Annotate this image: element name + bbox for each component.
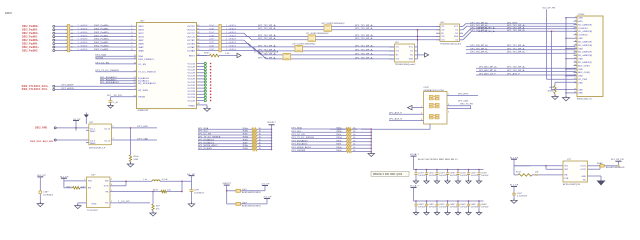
svg-text:DP2_TX0_MP_A-: DP2_TX0_MP_A-: [507, 69, 525, 72]
svg-text:DP1_EQ1ADD1: DP1_EQ1ADD1: [292, 143, 309, 146]
port DSI row 5: [53, 39, 55, 41]
pull-up row A DP1_DC_EN: [198, 134, 252, 136]
wire into U7 left: [514, 165, 530, 167]
svg-text:R0?: R0?: [156, 206, 160, 208]
no-ERC dot #5: [210, 78, 212, 80]
no-ERC dot #11: [210, 97, 212, 99]
svg-text:INCP: INCP: [138, 33, 144, 35]
svg-text:55: 55: [197, 42, 199, 44]
capacitor 082: [426, 200, 428, 202]
svg-text:10uF0603: 10uF0603: [43, 194, 53, 196]
svg-text:R09e: R09e: [337, 140, 342, 142]
capacitor 081: [415, 200, 417, 202]
ground R10: [130, 162, 132, 165]
svg-text:DSI2_PadM0-: DSI2_PadM0-: [22, 43, 38, 45]
svg-text:GND: GND: [409, 59, 414, 61]
svg-text:7: 7: [66, 47, 67, 49]
svg-text:ML_LANE1(P): ML_LANE1(P): [578, 40, 592, 43]
svg-text:GND: GND: [578, 69, 583, 71]
svg-text:24: 24: [134, 82, 136, 84]
svg-text:U7?: U7?: [567, 159, 572, 161]
svg-text:DP1_TX0_MP_A+: DP1_TX0_MP_A+: [471, 44, 489, 47]
svg-text:EN: EN: [88, 188, 91, 190]
pull-up row A DP1_EQ0ADD0: [198, 140, 252, 142]
node VCC ring #3: [204, 72, 206, 74]
svg-text:VCC28: VCC28: [188, 66, 196, 68]
wire VIN: [63, 178, 65, 188]
svg-text:0.1uF/50V: 0.1uF/50V: [517, 196, 528, 198]
capacitor network body: [219, 25, 221, 52]
svg-text:1: 1: [131, 25, 132, 27]
svg-text:C2e?: C2e?: [209, 39, 215, 41]
ground cap 074: [445, 181, 450, 184]
svg-text:ML_LANE0(P): ML_LANE0(P): [578, 23, 592, 26]
svg-text:R09h: R09h: [337, 150, 342, 152]
port circle HPD: [54, 127, 56, 129]
svg-text:CN1?: CN1?: [424, 87, 430, 89]
svg-text:OUTAN: OUTAN: [187, 49, 195, 52]
svg-text:VCC28: VCC28: [188, 69, 196, 71]
svg-text:C2c?: C2c?: [209, 32, 215, 34]
svg-text:DSI2_DDC_AUX_SEL: DSI2_DDC_AUX_SEL: [30, 140, 54, 143]
svg-text:1uF/50V: 1uF/50V: [439, 207, 447, 209]
port circle AUX: [53, 85, 55, 87]
resistor R 47k FB divider: [152, 191, 154, 193]
svg-text:1 .uF4DG: 1 .uF4DG: [78, 42, 88, 44]
pull-up row A DP1_SCL: [198, 131, 252, 133]
wire output row 7: [197, 46, 219, 48]
svg-text:DP2_TX0_MP_A+: DP2_TX0_MP_A+: [507, 66, 526, 69]
svg-text:3: 3: [131, 32, 132, 34]
svg-text:R09d: R09d: [337, 137, 342, 139]
port arrow CN1 pin1: [408, 105, 413, 109]
capacitor 086: [468, 200, 470, 202]
svg-text:DP1_SCL: DP1_SCL: [198, 131, 209, 133]
pull row B DP1_SDA: [292, 128, 347, 130]
svg-text:GND: GND: [454, 36, 459, 38]
svg-text:1 .uF4DG: 1 .uF4DG: [78, 49, 88, 51]
wire HPD row: [56, 127, 88, 129]
svg-text:DP1_CAD: DP1_CAD: [138, 137, 149, 140]
svg-text:DP1_SCL: DP1_SCL: [292, 131, 303, 133]
wire input row 6: [55, 43, 137, 45]
svg-text:20: 20: [574, 81, 576, 83]
svg-text:1uF/50V: 1uF/50V: [418, 175, 426, 177]
svg-text:IO4: IO4: [441, 40, 444, 42]
svg-text:FLB: FLB: [565, 178, 570, 180]
wire pair1 after choke: [332, 25, 441, 27]
pull-up row A DP1_EQ1ADD1: [198, 143, 252, 145]
pull-up row A DP1_RXSWN: [198, 149, 252, 151]
svg-text:8: 8: [131, 49, 132, 51]
svg-text:1: 1: [575, 17, 576, 19]
wire input row 1: [55, 25, 137, 27]
svg-text:GND: GND: [578, 59, 583, 61]
svg-text:1uF/50V: 1uF/50V: [429, 207, 437, 209]
svg-text:7: 7: [575, 37, 576, 39]
wire SW to inductor: [110, 180, 152, 182]
svg-text:4: 4: [131, 35, 132, 37]
capacitor 083: [436, 200, 438, 202]
svg-text:1 .uF4DG: 1 .uF4DG: [78, 32, 88, 34]
svg-text:R08b: R08b: [243, 131, 248, 133]
svg-text:6b H2 SH 2F2FE1 MBC MH1 BE 12: 6b H2 SH 2F2FE1 MBC MH1 BE 12: [418, 159, 458, 161]
svg-text:DP2_TX2_MP_A+: DP2_TX2_MP_A+: [258, 24, 277, 27]
svg-text:BLM15HB221SN1D: BLM15HB221SN1D: [242, 192, 262, 194]
ESD diode U5 box: [395, 44, 415, 62]
svg-text:VCC: VCC: [454, 26, 459, 28]
wire VCC stub #1: [197, 66, 205, 68]
svg-text:DP1_EQ0ADD0: DP1_EQ0ADD0: [292, 139, 309, 142]
svg-text:DP2_TX1_MP_A-: DP2_TX1_MP_A-: [355, 48, 373, 51]
ground rail B: [368, 154, 374, 157]
svg-text:GND: GND: [578, 38, 583, 40]
wire VDDPL rail A: [271, 125, 273, 150]
svg-text:2__PG_2V5: 2__PG_2V5: [118, 201, 130, 203]
svg-text:DP2_TX2_MP_A+: DP2_TX2_MP_A+: [258, 34, 277, 37]
resistor R21 10k: [513, 166, 515, 175]
capacitor 071: [415, 169, 417, 171]
pull-up row A DP1_MODE_ADD2: [198, 146, 252, 148]
svg-text:ML_LANE0(N): ML_LANE0(N): [578, 30, 592, 33]
svg-text:R08c: R08c: [243, 134, 248, 136]
svg-text:22: 22: [574, 92, 576, 94]
wire input row 5: [55, 39, 137, 41]
wire CON2 ground bus: [565, 18, 567, 98]
svg-text:INAP: INAP: [138, 46, 144, 49]
wire U7 GND: [588, 175, 602, 177]
svg-text:DP2_TX1_MP_A+: DP2_TX1_MP_A+: [258, 44, 277, 47]
svg-text:1 .uF4DG: 1 .uF4DG: [78, 39, 88, 41]
svg-text:14: 14: [71, 33, 73, 35]
svg-text:NC: NC: [583, 179, 587, 181]
node VCC ring #11: [204, 96, 206, 98]
svg-text:DP_PWR: DP_PWR: [578, 79, 588, 81]
svg-text:PWDB: PWDB: [138, 97, 145, 99]
svg-text:4: 4: [66, 36, 67, 38]
CN1 internal contact: [435, 114, 439, 116]
wire VCC stub #4: [197, 75, 205, 77]
svg-text:53: 53: [197, 49, 199, 51]
wire VCC stub #11: [197, 96, 205, 98]
svg-text:G1_4: G1_4: [90, 140, 95, 142]
pull row B DP1_MODE_ADD2: [292, 147, 347, 149]
svg-text:INAN: INAN: [138, 49, 144, 52]
wire group2 to CON2: [466, 45, 576, 47]
svg-text:390NQ: 390NQ: [548, 90, 555, 92]
svg-text:DP1_DC_EN: DP1_DC_EN: [292, 134, 306, 136]
svg-text:OUT1: OUT1: [580, 166, 586, 168]
wire U4 outputs to CON2: [463, 24, 576, 27]
capacitor C08 10uF: [39, 177, 41, 191]
svg-text:C29?: C29?: [194, 189, 199, 191]
svg-text:15: 15: [71, 29, 73, 31]
wire VCC stub #7: [197, 84, 205, 86]
pull-up row A DP1_TX_DC_SWNCB: [198, 137, 252, 139]
CN1 internal contact: [435, 95, 439, 97]
svg-text:DSI2_PadM2-: DSI2_PadM2-: [22, 30, 38, 32]
svg-text:DC_EN: DC_EN: [138, 64, 146, 66]
wire input row 8: [55, 49, 137, 51]
ground cap 077: [476, 181, 481, 184]
power VDDPL A: [269, 124, 275, 126]
svg-text:1: 1: [421, 106, 422, 108]
svg-text:PAD8: PAD8: [90, 142, 95, 145]
svg-text:13: 13: [71, 36, 73, 38]
svg-text:1uF/50V: 1uF/50V: [481, 207, 489, 209]
wire VCC stub #9: [197, 90, 205, 92]
svg-text:DP2_TX2_MP_A+: DP2_TX2_MP_A+: [355, 34, 374, 37]
connector CON2 box: [577, 16, 603, 97]
ground cap 082: [424, 213, 429, 216]
svg-text:3: 3: [113, 138, 114, 140]
no-ERC dot #0: [210, 63, 212, 65]
svg-text:R08f: R08f: [243, 142, 248, 144]
svg-text:12: 12: [574, 54, 576, 56]
svg-text:D1: D1: [411, 51, 414, 53]
svg-text:1uF/50V: 1uF/50V: [429, 175, 437, 177]
op IC U1 box: [137, 23, 197, 109]
capacitor 072: [426, 169, 428, 171]
wire U2 drain2: [111, 139, 157, 141]
resistor network RN1 body: [67, 25, 69, 52]
svg-text:DSI2_PadM2-: DSI2_PadM2-: [94, 42, 109, 44]
ferrite bead L0b: [227, 203, 236, 205]
svg-text:INBP: INBP: [138, 40, 144, 42]
node VCC ring #6: [204, 81, 206, 83]
pull row B DP1_EQ0ADD0: [292, 141, 347, 143]
wire HPD_PB bottom: [361, 124, 430, 129]
svg-text:PAD2: PAD2: [90, 130, 95, 133]
svg-text:DP1_RXSWN: DP1_RXSWN: [292, 150, 306, 152]
svg-text:D1_B: D1_B: [105, 140, 111, 142]
svg-text:1uF/50V: 1uF/50V: [418, 207, 426, 209]
wire U5 ground bus: [417, 30, 419, 59]
wire pair1+: [221, 25, 331, 27]
svg-text:IO3: IO3: [396, 59, 399, 61]
svg-text:11: 11: [71, 43, 73, 45]
svg-text:DP2_TX2_MP_A-: DP2_TX2_MP_A-: [355, 37, 373, 40]
wire U2 drain1: [111, 127, 157, 129]
svg-text:5: 5: [131, 39, 132, 41]
svg-text:IN1: IN1: [565, 166, 568, 168]
wire to U7 IN: [514, 165, 563, 167]
svg-text:TPD4E05U06Quadtr4: TPD4E05U06Quadtr4: [440, 43, 461, 46]
svg-text:DP2_TX1_MP_A+: DP2_TX1_MP_A+: [355, 44, 374, 47]
wire pair2+ diagonal: [221, 33, 308, 36]
svg-text:VCC28: VCC28: [188, 100, 196, 102]
svg-text:VDDPL?: VDDPL?: [267, 122, 276, 124]
port DSI row 6: [53, 43, 55, 45]
svg-text:DSI2_PadM2+: DSI2_PadM2+: [22, 26, 39, 28]
svg-text:47k: 47k: [156, 209, 160, 211]
port DSI row 7: [53, 46, 55, 48]
svg-text:14: 14: [574, 61, 576, 63]
resistor R10 100k: [130, 127, 132, 128]
svg-text:DSI2_PadMC+: DSI2_PadMC+: [22, 47, 39, 49]
svg-text:5: 5: [575, 30, 576, 32]
ferrite bead L0a: [227, 190, 236, 192]
ground C08: [39, 194, 41, 204]
svg-text:DP1_DC_EN: DP1_DC_EN: [198, 134, 212, 136]
svg-text:13: 13: [134, 58, 136, 60]
svg-text:59: 59: [197, 28, 199, 30]
svg-text:6: 6: [131, 42, 132, 44]
ground CON2 bus: [562, 98, 569, 101]
wire cap bus 07: [414, 169, 484, 171]
regulator U3 box: [87, 177, 111, 208]
svg-text:6: 6: [113, 126, 114, 128]
wire input row 3: [55, 32, 137, 34]
svg-text:54: 54: [197, 46, 199, 48]
svg-text:2: 2: [66, 29, 67, 31]
svg-text:RxPGN: RxPGN: [95, 57, 103, 59]
svg-text:ML_LANE2(P): ML_LANE2(P): [578, 51, 592, 54]
svg-text:DP2_AUX_MP_A-: DP2_AUX_MP_A-: [479, 69, 497, 72]
svg-text:INBN: INBN: [138, 43, 144, 45]
svg-text:57: 57: [197, 35, 199, 37]
svg-text:1uF/50V: 1uF/50V: [439, 175, 447, 177]
ground cap 072: [424, 181, 429, 184]
svg-text:1 .uF4DG: 1 .uF4DG: [78, 25, 88, 27]
capacitor 074: [447, 169, 449, 171]
ground C29: [191, 191, 193, 204]
svg-text:DP1_AUXP: DP1_AUXP: [62, 84, 75, 87]
wire AUX_SEL row: [56, 139, 88, 141]
wire pair4 after choke: [291, 54, 395, 56]
svg-text:SDA: SDA: [138, 55, 143, 58]
ground cap 073: [434, 181, 439, 184]
svg-text:IO1: IO1: [396, 47, 399, 49]
svg-text:IO3: IO3: [441, 36, 444, 38]
svg-text:GND: GND: [578, 76, 583, 78]
pull row B DP1_EQ1ADD1: [292, 144, 347, 146]
svg-text:100k: 100k: [134, 159, 139, 161]
ground cap 086: [466, 213, 471, 216]
svg-text:INDN: INDN: [138, 30, 144, 32]
capacitor 085: [457, 200, 459, 202]
wire VOS join: [110, 185, 126, 187]
svg-text:VIN: VIN: [88, 181, 92, 183]
svg-text:OUTDN: OUTDN: [187, 30, 196, 32]
svg-text:REXT: REXT: [189, 55, 196, 57]
ground cap 084: [445, 213, 450, 216]
ground 47k: [152, 211, 154, 214]
svg-text:21: 21: [574, 88, 576, 90]
svg-text:VCC28: VCC28: [188, 91, 196, 93]
no-ERC dot #12: [210, 100, 212, 102]
pull row B DP1_DC_EN: [292, 134, 347, 136]
no-ERC dot #8: [210, 87, 212, 89]
svg-text:18: 18: [574, 75, 576, 77]
svg-text:IN2: IN2: [565, 169, 568, 171]
wire output row 6: [197, 43, 219, 45]
CN1 internal contact: [429, 95, 433, 97]
wire input row 4: [55, 36, 137, 38]
port DSI row 2: [53, 29, 55, 31]
svg-text:R08a: R08a: [243, 128, 249, 130]
svg-text:DP1_TX0_MP_B+: DP1_TX0_MP_B+: [471, 52, 489, 54]
svg-text:R08d: R08d: [243, 137, 248, 139]
no-ERC dot #4: [210, 75, 212, 77]
capacitor 073: [436, 169, 438, 171]
ground cap 071: [413, 181, 418, 184]
svg-text:GND: GND: [92, 204, 97, 206]
port arrow REXT: [237, 53, 241, 57]
port DSI row 4: [53, 36, 55, 38]
svg-text:R08e: R08e: [243, 139, 248, 141]
no-ERC dot #1: [210, 66, 212, 68]
wire VCC stub #0: [197, 63, 205, 65]
svg-text:R09c: R09c: [337, 134, 342, 136]
svg-text:1uF/50V: 1uF/50V: [471, 207, 479, 209]
svg-text:CONFIG2: CONFIG2: [578, 35, 588, 37]
svg-text:DP1_EQ0ADD0: DP1_EQ0ADD0: [198, 138, 215, 141]
svg-text:ML_LANE1(N): ML_LANE1(N): [578, 44, 592, 47]
ground C20: [511, 200, 517, 203]
svg-text:R10a: R10a: [134, 156, 140, 158]
svg-text:8: 8: [66, 50, 67, 52]
no-ERC dot #7: [210, 84, 212, 86]
svg-text:8: 8: [135, 85, 136, 87]
svg-text:U5?: U5?: [395, 42, 399, 44]
CN1 internal contact: [429, 103, 433, 105]
svg-text:DP1_MODE_ADD2: DP1_MODE_ADD2: [292, 146, 312, 149]
svg-text:60: 60: [197, 25, 199, 27]
svg-text:R01?: R01?: [153, 189, 158, 191]
svg-text:1uF/50V: 1uF/50V: [481, 175, 489, 177]
pull-up row A DP1_SDA: [198, 128, 252, 130]
ground ADM resistor: [554, 94, 556, 97]
wire output row 3: [197, 32, 219, 34]
wire U3 GND to ground: [78, 202, 87, 204]
svg-text:6: 6: [448, 111, 449, 113]
svg-text:D1: D1: [456, 30, 459, 32]
wire pair4- diagonal: [221, 50, 283, 58]
svg-text:7: 7: [131, 46, 132, 48]
svg-text:R09b: R09b: [337, 131, 342, 133]
svg-text:6: 6: [66, 43, 67, 45]
ESD diode U4 box: [440, 24, 460, 42]
svg-text:9: 9: [575, 44, 576, 46]
svg-text:BLE/NP9083MH1D: BLE/NP9083MH1D: [606, 167, 625, 169]
svg-text:R08g: R08g: [243, 145, 248, 147]
svg-text:DSI2_CTLDATA_AUX+: DSI2_CTLDATA_AUX+: [22, 85, 49, 88]
svg-text:DP2_TX2_MP_A+: DP2_TX2_MP_A+: [478, 27, 496, 30]
svg-text:C2b?: C2b?: [209, 28, 215, 30]
svg-text:77: 77: [134, 70, 136, 72]
svg-text:TPD4E05U06Quadtr?: TPD4E05U06Quadtr?: [395, 63, 416, 66]
svg-text:1: 1: [84, 179, 85, 181]
svg-text:OUTDP: OUTDP: [187, 26, 196, 28]
svg-text:DSI2_PadM0-: DSI2_PadM0-: [94, 28, 109, 30]
wire pair3+ diagonal: [221, 40, 295, 47]
svg-text:DP1_HPD: DP1_HPD: [138, 126, 149, 128]
svg-text:12: 12: [71, 40, 73, 42]
wire input row 2: [55, 29, 137, 31]
svg-text:16: 16: [134, 63, 136, 65]
svg-text:U2?: U2?: [89, 122, 94, 124]
svg-text:DP2_CAD: DP2_CAD: [458, 99, 469, 102]
wire output row 8: [197, 49, 219, 51]
svg-text:R09g: R09g: [337, 147, 342, 149]
no-ERC dot #6: [210, 81, 212, 83]
svg-text:10k: 10k: [167, 189, 171, 191]
svg-text:SL2_DP_PB: SL2_DP_PB: [543, 7, 556, 9]
svg-text:C2a?: C2a?: [209, 25, 215, 27]
wire cap bus 08: [414, 200, 484, 202]
svg-text:1uF/50V: 1uF/50V: [460, 207, 468, 209]
